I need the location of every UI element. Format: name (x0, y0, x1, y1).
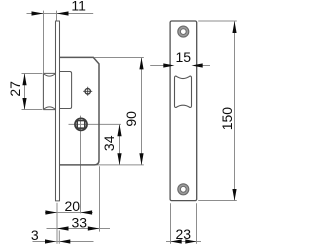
svg-text:11: 11 (71, 0, 86, 14)
svg-text:15: 15 (176, 49, 192, 65)
svg-text:150: 150 (219, 107, 235, 131)
svg-text:20: 20 (65, 198, 81, 214)
svg-text:34: 34 (101, 135, 117, 151)
svg-text:3: 3 (31, 227, 39, 243)
svg-text:90: 90 (123, 111, 139, 127)
svg-text:23: 23 (176, 226, 192, 242)
svg-text:27: 27 (7, 81, 23, 97)
svg-text:33: 33 (72, 214, 88, 230)
